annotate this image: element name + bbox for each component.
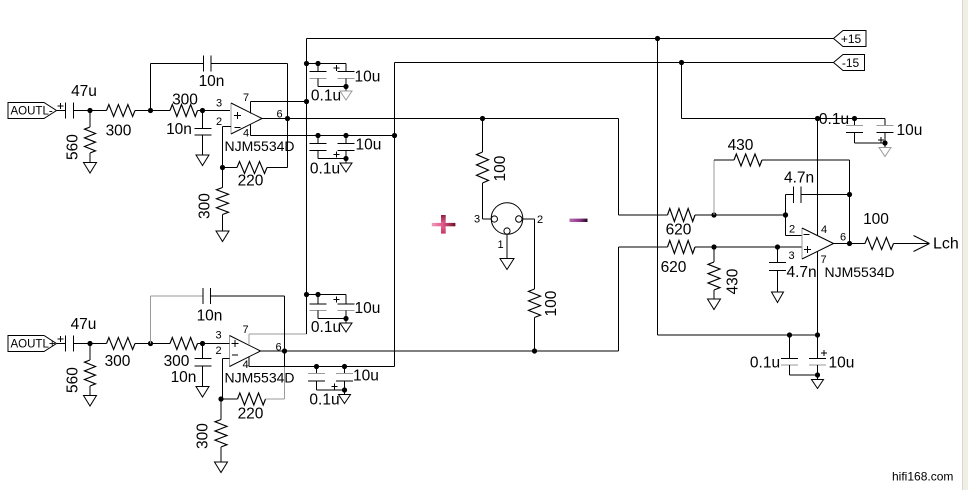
svg-text:620: 620	[666, 222, 692, 239]
svg-text:0.1u: 0.1u	[309, 392, 339, 409]
svg-text:10u: 10u	[355, 300, 381, 317]
svg-text:3: 3	[474, 214, 480, 226]
svg-text:4.7n: 4.7n	[787, 264, 817, 281]
svg-text:+15: +15	[841, 32, 862, 46]
svg-text:AOUTL+: AOUTL+	[11, 339, 56, 351]
svg-text:1: 1	[497, 239, 503, 251]
svg-text:300: 300	[197, 193, 214, 219]
svg-text:0.1u: 0.1u	[819, 111, 849, 128]
svg-text:Lch: Lch	[933, 236, 959, 253]
svg-text:10n: 10n	[171, 369, 197, 386]
svg-text:6: 6	[840, 232, 846, 244]
svg-text:10u: 10u	[353, 368, 379, 385]
svg-text:2: 2	[537, 214, 543, 226]
svg-text:300: 300	[105, 353, 131, 370]
svg-text:300: 300	[106, 123, 132, 140]
svg-text:3: 3	[215, 330, 221, 342]
svg-text:2: 2	[789, 224, 795, 236]
svg-text:3: 3	[788, 250, 794, 262]
svg-text:430: 430	[725, 268, 742, 294]
svg-text:-15: -15	[842, 56, 860, 70]
svg-text:300: 300	[164, 353, 190, 370]
svg-text:3: 3	[216, 98, 222, 110]
svg-text:47u: 47u	[71, 316, 97, 333]
svg-text:4.7n: 4.7n	[784, 170, 814, 187]
svg-text:NJM5534D: NJM5534D	[825, 264, 895, 280]
svg-text:7: 7	[243, 92, 249, 104]
svg-text:2: 2	[215, 345, 221, 357]
svg-text:430: 430	[728, 137, 754, 154]
svg-text:220: 220	[238, 406, 264, 423]
svg-text:560: 560	[65, 134, 82, 160]
svg-text:4: 4	[821, 224, 827, 236]
svg-text:hifi168.com: hifi168.com	[892, 470, 953, 484]
svg-text:10u: 10u	[355, 69, 381, 86]
svg-text:300: 300	[195, 423, 212, 449]
svg-text:10u: 10u	[897, 122, 923, 139]
svg-text:10u: 10u	[829, 355, 855, 372]
svg-text:300: 300	[172, 92, 198, 109]
svg-text:10n: 10n	[166, 121, 192, 138]
svg-text:NJM5534D: NJM5534D	[225, 138, 295, 154]
svg-text:100: 100	[863, 211, 889, 228]
svg-text:2: 2	[216, 116, 222, 128]
svg-text:NJM5534D: NJM5534D	[225, 370, 295, 386]
svg-text:7: 7	[242, 324, 248, 336]
svg-text:0.1u: 0.1u	[750, 355, 780, 372]
svg-text:620: 620	[661, 259, 687, 276]
svg-text:220: 220	[238, 173, 264, 190]
svg-text:6: 6	[275, 342, 281, 354]
svg-text:10n: 10n	[197, 308, 223, 325]
svg-text:47u: 47u	[71, 83, 97, 100]
svg-text:AOUTL-: AOUTL-	[11, 106, 53, 118]
svg-text:10u: 10u	[356, 137, 382, 154]
svg-text:10n: 10n	[199, 73, 225, 90]
svg-text:100: 100	[492, 155, 509, 181]
svg-text:100: 100	[543, 290, 560, 316]
svg-text:560: 560	[65, 367, 82, 393]
svg-text:0.1u: 0.1u	[311, 319, 341, 336]
svg-text:0.1u: 0.1u	[310, 161, 340, 178]
svg-text:0.1u: 0.1u	[311, 88, 341, 105]
